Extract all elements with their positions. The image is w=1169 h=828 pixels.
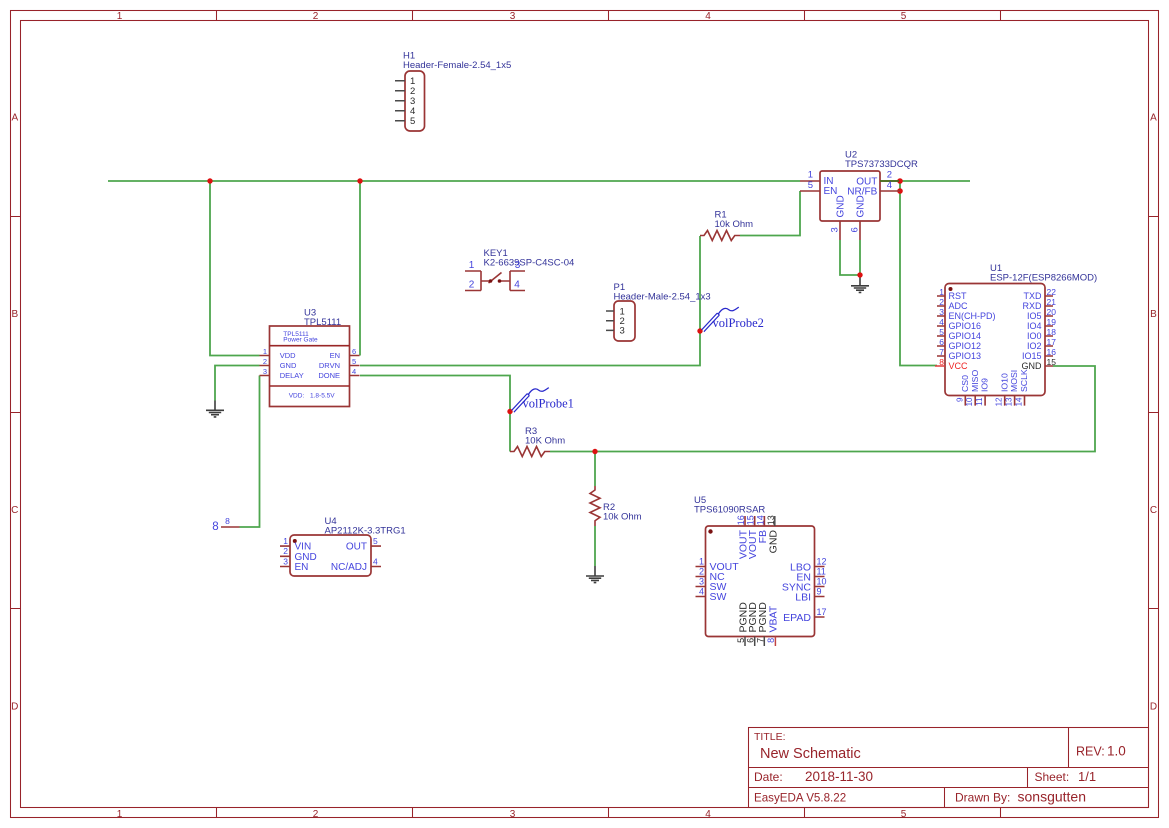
title block [749,728,1149,808]
svg-text:2018-11-30: 2018-11-30 [805,769,873,784]
svg-text:15: 15 [1047,357,1057,367]
wire U3 GND to ground [215,366,260,401]
svg-text:OUT: OUT [346,542,367,553]
svg-text:IO0: IO0 [1027,331,1042,341]
svg-text:8: 8 [225,516,230,526]
svg-text:10K Ohm: 10K Ohm [525,436,565,447]
svg-text:IO5: IO5 [1027,311,1042,321]
svg-text:9: 9 [955,397,964,402]
svg-text:4: 4 [939,317,944,327]
svg-text:New Schematic: New Schematic [760,746,861,762]
svg-text:11: 11 [975,397,984,406]
resistor R3 10K Ohm [510,426,565,457]
svg-text:3: 3 [830,227,841,232]
svg-text:1: 1 [469,260,475,271]
svg-text:GPIO14: GPIO14 [949,331,982,341]
wire R2 bottom to ground [594,526,596,566]
svg-text:2: 2 [283,546,288,556]
svg-text:Drawn By:: Drawn By: [955,791,1010,805]
wire U3 DELAY to port 8 [240,376,260,528]
svg-text:5: 5 [352,357,356,366]
svg-text:VDD: VDD [280,351,296,360]
wire U2 OUT net [880,180,970,182]
wire R3 to junction [550,451,595,453]
svg-text:5: 5 [939,327,944,337]
svg-text:14: 14 [1015,397,1024,406]
svg-text:Sheet:: Sheet: [1035,770,1070,784]
svg-text:ADC: ADC [949,301,969,311]
svg-text:1.0: 1.0 [1107,744,1126,759]
svg-text:5: 5 [901,809,907,820]
svg-text:IO15: IO15 [1022,351,1042,361]
svg-text:12: 12 [995,397,1004,406]
svg-text:CS0: CS0 [960,375,970,392]
regulator U2 TPS73733DCQR [800,150,918,241]
svg-text:1/1: 1/1 [1078,769,1096,784]
svg-text:14: 14 [755,515,765,525]
svg-text:DONE: DONE [318,371,340,380]
svg-text:4: 4 [705,809,711,820]
svg-text:10: 10 [965,397,974,406]
svg-text:17: 17 [817,607,827,617]
svg-text:1: 1 [939,287,944,297]
svg-text:2: 2 [469,280,475,291]
svg-text:12: 12 [817,556,827,566]
wire R1 to U2 EN [740,191,800,236]
svg-text:volProbe1: volProbe1 [523,397,574,411]
svg-text:REV:: REV: [1076,745,1105,759]
svg-text:LBI: LBI [795,591,811,603]
svg-text:RXD: RXD [1022,301,1042,311]
svg-text:19: 19 [1047,317,1057,327]
svg-text:2: 2 [939,297,944,307]
junction dot [207,178,212,183]
junction dot volProbe1 [507,409,512,414]
svg-text:DELAY: DELAY [280,371,304,380]
svg-text:Header-Female-2.54_1x5: Header-Female-2.54_1x5 [403,60,511,71]
svg-text:4: 4 [705,11,711,22]
svg-text:7: 7 [755,638,765,643]
junction dot [357,178,362,183]
svg-text:1: 1 [117,809,123,820]
svg-text:3: 3 [510,809,516,820]
svg-text:22: 22 [1047,287,1057,297]
svg-text:GPIO16: GPIO16 [949,321,982,331]
svg-text:15: 15 [746,515,756,525]
resistor R2 10k Ohm [590,486,642,526]
svg-text:6: 6 [939,337,944,347]
svg-text:sonsgutten: sonsgutten [1018,789,1087,805]
svg-text:5: 5 [808,180,813,191]
svg-text:11: 11 [817,566,826,576]
svg-text:IO2: IO2 [1027,341,1042,351]
wire U3 DRVN net [360,236,700,366]
svg-text:5: 5 [410,116,415,127]
svg-text:MISO: MISO [970,370,980,392]
svg-text:EN: EN [295,562,309,573]
svg-text:5: 5 [736,638,746,643]
net port 8 [212,516,239,533]
svg-text:GPIO12: GPIO12 [949,341,982,351]
svg-text:IO4: IO4 [1027,321,1042,331]
svg-text:C: C [1150,505,1157,516]
probe volProbe2 [702,307,764,332]
svg-text:2: 2 [699,566,704,576]
ground near U3 [206,401,224,417]
svg-text:volProbe2: volProbe2 [713,316,764,330]
svg-text:ESP-12F(ESP8266MOD): ESP-12F(ESP8266MOD) [990,273,1097,284]
svg-text:4: 4 [352,367,356,376]
wire U2 GND pins to ground [840,240,860,275]
converter U5 TPS61090RSAR [694,495,827,646]
wire OUT down to U1 VCC [900,181,937,366]
wire drop to U3 pin6 EN [359,181,361,356]
svg-text:NC/ADJ: NC/ADJ [331,562,367,573]
svg-text:A: A [1150,113,1157,124]
junction dot [897,178,903,184]
switch KEY1 K2-6639SP-C4SC-04 [465,248,574,291]
svg-text:EN: EN [330,351,340,360]
svg-text:3: 3 [510,11,516,22]
wire junction to U1 GND [595,366,1095,452]
svg-text:IO10: IO10 [999,373,1009,392]
svg-text:10k Ohm: 10k Ohm [603,512,642,523]
svg-text:2: 2 [263,357,267,366]
svg-text:D: D [1150,702,1157,713]
svg-text:EasyEDA V5.8.22: EasyEDA V5.8.22 [754,792,846,805]
svg-text:EN(CH-PD): EN(CH-PD) [949,311,996,321]
ground below U2 [851,275,869,292]
svg-text:B: B [1150,309,1157,320]
svg-text:GPIO13: GPIO13 [949,351,982,361]
svg-text:1: 1 [699,556,704,566]
svg-text:DRVN: DRVN [319,361,340,370]
svg-text:VBAT: VBAT [768,605,780,632]
svg-text:20: 20 [1047,307,1057,317]
svg-text:10k Ohm: 10k Ohm [715,219,754,230]
svg-text:3: 3 [939,307,944,317]
ground below R2 [586,566,604,583]
svg-text:3: 3 [515,260,521,271]
svg-text:3: 3 [283,556,288,566]
wire drop to U3 pin1 VDD [210,181,260,356]
junction dot volProbe2 [697,328,702,333]
svg-text:2: 2 [313,11,319,22]
regulator U4 AP2112K-3.3TRG1 [280,516,406,576]
connector H1 Header-Female-2.54_1x5 [395,51,511,132]
svg-text:18: 18 [1047,327,1057,337]
svg-text:C: C [11,505,18,516]
svg-text:1: 1 [283,536,288,546]
svg-text:3: 3 [699,576,704,586]
svg-text:A: A [11,113,18,124]
svg-text:16: 16 [736,515,746,525]
svg-text:6: 6 [746,638,756,643]
svg-text:1.8-5.5V: 1.8-5.5V [310,392,335,399]
junction dot [857,272,862,277]
svg-text:MOSI: MOSI [1009,370,1019,392]
svg-text:3: 3 [620,326,625,337]
svg-text:5: 5 [901,11,907,22]
svg-text:Power Gate: Power Gate [283,336,318,343]
svg-text:EPAD: EPAD [783,612,811,624]
svg-text:1: 1 [263,347,267,356]
wire U3 DONE net [360,376,510,452]
svg-text:SW: SW [710,591,727,603]
svg-text:D: D [11,702,18,713]
svg-text:GND: GND [835,195,846,217]
svg-text:6: 6 [850,227,861,232]
svg-text:7: 7 [939,347,944,357]
svg-text:16: 16 [1047,347,1057,357]
svg-text:4: 4 [373,556,378,566]
svg-text:1: 1 [117,11,123,22]
svg-text:2: 2 [313,809,319,820]
svg-text:8: 8 [766,638,776,643]
svg-text:8: 8 [939,357,944,367]
svg-text:TXD: TXD [1024,291,1043,301]
probe volProbe1 [512,388,574,413]
svg-text:TPS73733DCQR: TPS73733DCQR [845,159,918,170]
svg-text:13: 13 [766,515,776,525]
svg-text:10: 10 [817,576,827,586]
svg-text:4: 4 [699,586,704,596]
svg-text:K2-6639SP-C4SC-04: K2-6639SP-C4SC-04 [484,258,575,269]
svg-text:TITLE:: TITLE: [754,731,786,743]
svg-text:4: 4 [887,180,892,191]
resistor R1 10k Ohm [700,210,753,241]
wire top power net [108,180,800,182]
svg-text:RST: RST [949,291,968,301]
svg-text:GND: GND [855,195,866,217]
junction dot R2/R3 [592,449,597,454]
svg-text:21: 21 [1047,297,1057,307]
svg-text:VDD:: VDD: [289,392,305,399]
timer U3 TPL5111 [260,308,360,407]
svg-text:17: 17 [1047,337,1057,347]
svg-text:GND: GND [280,361,297,370]
svg-text:TPS61090RSAR: TPS61090RSAR [694,505,765,516]
svg-text:5: 5 [373,536,378,546]
svg-text:4: 4 [514,280,520,291]
svg-text:SCLK: SCLK [1019,369,1029,392]
svg-text:9: 9 [817,586,822,596]
svg-text:B: B [11,309,18,320]
svg-text:3: 3 [263,367,267,376]
svg-text:Date:: Date: [754,770,783,784]
svg-text:13: 13 [1005,397,1014,406]
connector P1 Header-Male-2.54_1x3 [606,282,711,341]
svg-text:6: 6 [352,347,356,356]
svg-text:8: 8 [212,521,218,533]
svg-text:VCC: VCC [949,361,969,371]
module U1 ESP-12F(ESP8266MOD) [935,263,1097,406]
svg-text:IO9: IO9 [980,378,990,392]
wire R2 top [594,452,596,487]
svg-text:GND: GND [768,530,780,554]
junction dot [897,188,903,194]
